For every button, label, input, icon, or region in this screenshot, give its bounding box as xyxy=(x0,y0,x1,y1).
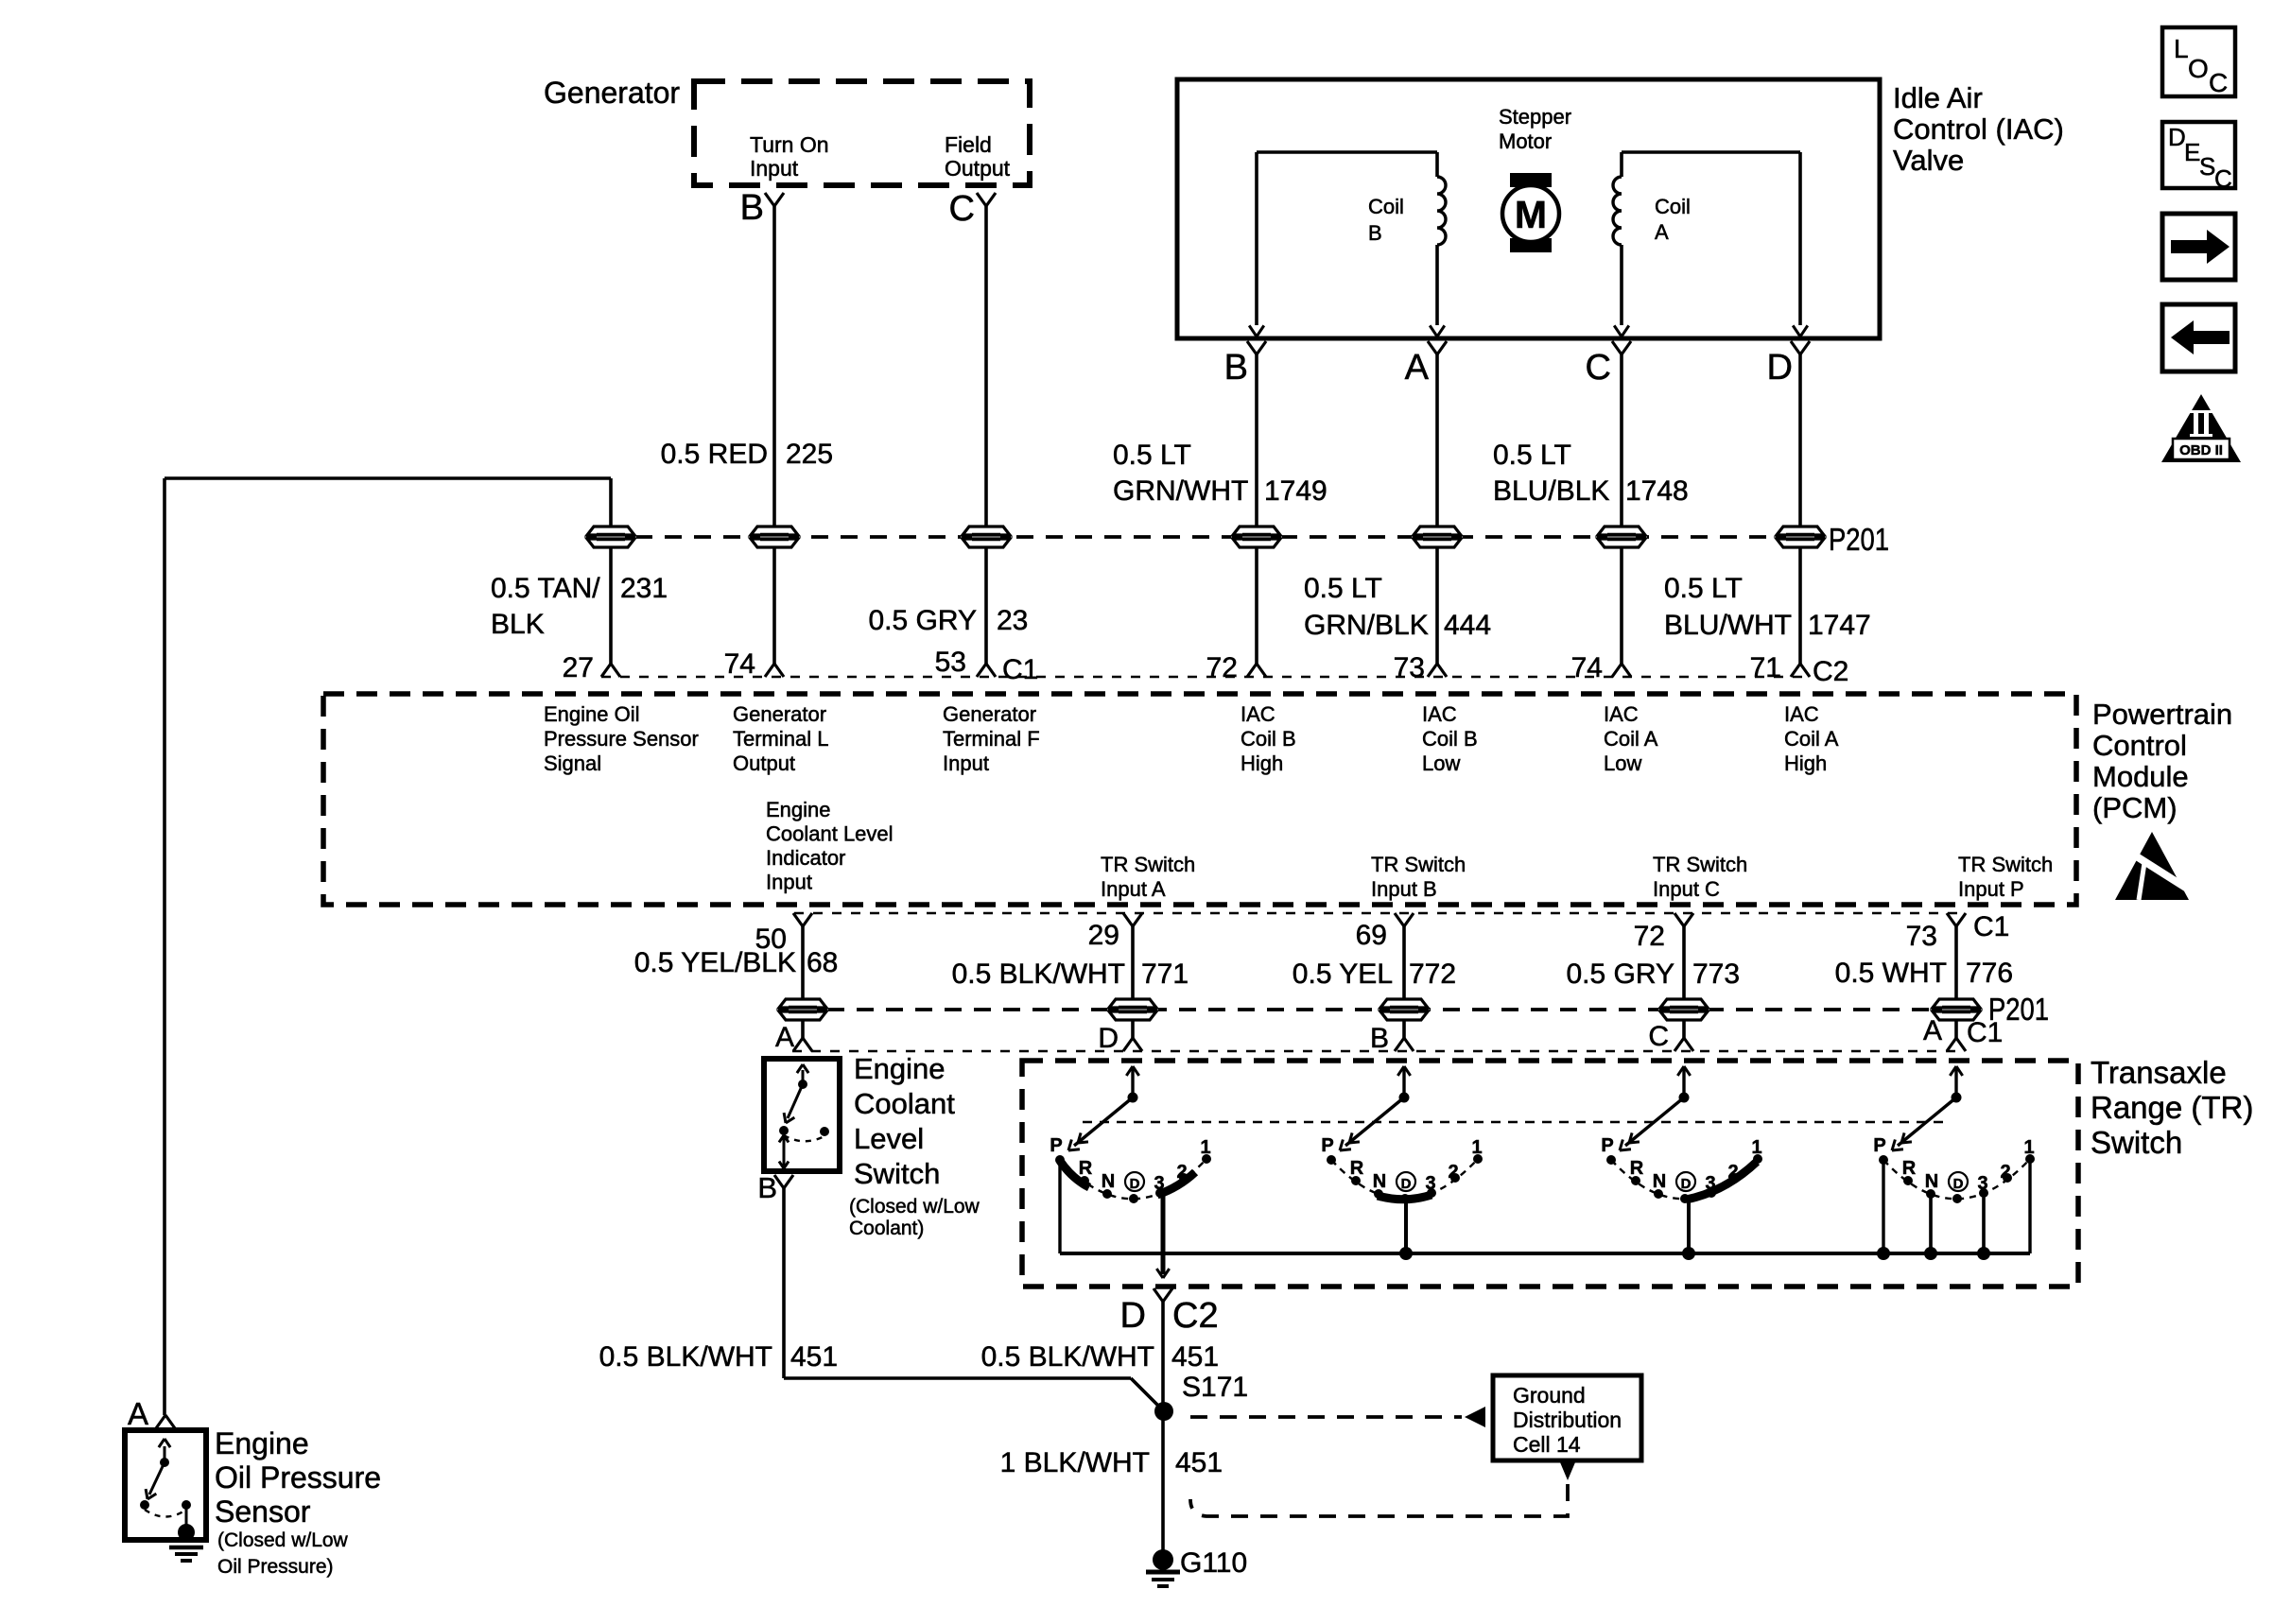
svg-text:Output: Output xyxy=(945,156,1011,181)
svg-text:B: B xyxy=(740,188,764,228)
svg-text:Input B: Input B xyxy=(1371,877,1437,901)
svg-text:GRN/WHT: GRN/WHT xyxy=(1113,475,1248,507)
svg-text:A: A xyxy=(775,1022,794,1053)
svg-text:P: P xyxy=(1050,1135,1062,1156)
svg-text:C: C xyxy=(2214,164,2232,193)
svg-text:29: 29 xyxy=(1088,920,1119,951)
svg-text:1: 1 xyxy=(1471,1137,1482,1158)
svg-text:Low: Low xyxy=(1422,752,1460,775)
svg-text:E: E xyxy=(2184,138,2200,166)
svg-text:Engine: Engine xyxy=(766,798,831,821)
svg-text:N: N xyxy=(1653,1171,1666,1192)
svg-text:27: 27 xyxy=(563,652,594,683)
svg-text:Engine: Engine xyxy=(215,1426,309,1460)
svg-text:Switch: Switch xyxy=(854,1157,940,1190)
svg-text:TR Switch: TR Switch xyxy=(1371,853,1466,876)
svg-text:69: 69 xyxy=(1356,920,1387,951)
svg-text:B: B xyxy=(1224,348,1248,388)
svg-text:0.5 YEL/BLK: 0.5 YEL/BLK xyxy=(634,947,796,978)
svg-text:73: 73 xyxy=(1906,921,1937,952)
svg-text:D: D xyxy=(1953,1176,1964,1192)
svg-text:Coil A: Coil A xyxy=(1604,727,1658,751)
svg-text:73: 73 xyxy=(1394,652,1425,683)
svg-text:2: 2 xyxy=(1448,1162,1458,1183)
svg-text:225: 225 xyxy=(786,439,833,470)
svg-text:L: L xyxy=(2174,34,2189,63)
svg-text:1749: 1749 xyxy=(1264,475,1327,507)
svg-text:776: 776 xyxy=(1966,958,2013,989)
svg-text:Valve: Valve xyxy=(1893,144,1964,177)
svg-text:1 BLK/WHT: 1 BLK/WHT xyxy=(1000,1447,1150,1478)
svg-text:A: A xyxy=(1655,220,1669,244)
svg-text:P: P xyxy=(1873,1135,1885,1156)
svg-text:M: M xyxy=(1515,193,1547,236)
svg-text:(PCM): (PCM) xyxy=(2092,791,2178,824)
svg-text:TR Switch: TR Switch xyxy=(1958,853,2053,876)
svg-text:Terminal L: Terminal L xyxy=(733,727,828,751)
svg-text:3: 3 xyxy=(1977,1173,1987,1194)
svg-text:Input: Input xyxy=(943,752,989,775)
svg-text:451: 451 xyxy=(790,1341,838,1373)
svg-text:TR Switch: TR Switch xyxy=(1653,853,1747,876)
svg-text:Turn On: Turn On xyxy=(750,132,829,157)
svg-text:Oil Pressure: Oil Pressure xyxy=(215,1460,381,1494)
svg-text:C: C xyxy=(1648,1021,1669,1052)
svg-text:BLU/BLK: BLU/BLK xyxy=(1493,475,1609,507)
svg-text:Input A: Input A xyxy=(1101,877,1166,901)
svg-text:53: 53 xyxy=(935,647,966,678)
svg-text:444: 444 xyxy=(1444,610,1491,641)
svg-text:P: P xyxy=(1321,1135,1333,1156)
svg-text:Distribution: Distribution xyxy=(1513,1408,1622,1432)
svg-text:R: R xyxy=(1079,1158,1093,1179)
svg-text:Low: Low xyxy=(1604,752,1641,775)
svg-text:N: N xyxy=(1102,1171,1115,1192)
svg-text:Input: Input xyxy=(766,871,812,894)
svg-text:0.5 LT: 0.5 LT xyxy=(1304,573,1382,604)
svg-text:0.5 GRY: 0.5 GRY xyxy=(1566,959,1674,990)
svg-text:D: D xyxy=(1098,1023,1119,1054)
svg-text:Oil Pressure): Oil Pressure) xyxy=(217,1556,334,1578)
svg-text:Terminal F: Terminal F xyxy=(943,727,1040,751)
svg-text:Generator: Generator xyxy=(544,76,680,110)
svg-text:D: D xyxy=(2168,123,2186,151)
svg-text:Field: Field xyxy=(945,132,992,157)
svg-text:1: 1 xyxy=(1200,1137,1210,1158)
svg-text:72: 72 xyxy=(1206,652,1238,683)
svg-text:Input C: Input C xyxy=(1653,877,1720,901)
svg-text:1747: 1747 xyxy=(1808,610,1871,641)
svg-text:0.5 LT: 0.5 LT xyxy=(1493,440,1571,471)
svg-text:Coolant): Coolant) xyxy=(849,1218,924,1239)
svg-text:N: N xyxy=(1373,1171,1386,1192)
svg-text:0.5 GRY: 0.5 GRY xyxy=(868,605,977,636)
svg-text:D: D xyxy=(1120,1296,1146,1336)
svg-text:772: 772 xyxy=(1409,959,1456,990)
svg-text:IAC: IAC xyxy=(1241,702,1275,726)
svg-text:Generator: Generator xyxy=(943,702,1036,726)
svg-text:D: D xyxy=(1130,1176,1140,1192)
svg-text:Ground: Ground xyxy=(1513,1383,1586,1408)
svg-text:0.5 RED: 0.5 RED xyxy=(661,439,768,470)
svg-text:C: C xyxy=(949,189,975,229)
svg-text:Coolant Level: Coolant Level xyxy=(766,822,894,846)
svg-text:P201: P201 xyxy=(1829,522,1889,557)
svg-text:Motor: Motor xyxy=(1499,130,1552,153)
svg-text:23: 23 xyxy=(997,605,1028,636)
svg-text:Range (TR): Range (TR) xyxy=(2091,1090,2253,1125)
svg-text:P: P xyxy=(1601,1135,1613,1156)
svg-text:Engine: Engine xyxy=(854,1052,946,1085)
svg-text:A: A xyxy=(128,1396,148,1431)
svg-text:Transaxle: Transaxle xyxy=(2091,1055,2227,1090)
svg-text:Generator: Generator xyxy=(733,702,826,726)
svg-text:GRN/BLK: GRN/BLK xyxy=(1304,610,1429,641)
svg-text:Indicator: Indicator xyxy=(766,846,845,870)
svg-text:D: D xyxy=(1767,348,1793,388)
svg-text:R: R xyxy=(1350,1158,1364,1179)
svg-text:C2: C2 xyxy=(1172,1296,1219,1336)
svg-text:Signal: Signal xyxy=(544,752,601,775)
svg-text:Powertrain: Powertrain xyxy=(2092,698,2232,731)
svg-text:Input P: Input P xyxy=(1958,877,2024,901)
svg-text:C: C xyxy=(1586,348,1611,388)
svg-text:Control (IAC): Control (IAC) xyxy=(1893,112,2064,146)
svg-text:Input: Input xyxy=(750,156,799,181)
svg-text:D: D xyxy=(1401,1176,1412,1192)
svg-text:R: R xyxy=(1902,1158,1917,1179)
svg-text:A: A xyxy=(1923,1015,1942,1046)
svg-text:0.5 LT: 0.5 LT xyxy=(1664,573,1743,604)
svg-text:Engine Oil: Engine Oil xyxy=(544,702,640,726)
svg-text:C1: C1 xyxy=(1002,654,1038,685)
svg-text:Sensor: Sensor xyxy=(215,1494,311,1529)
svg-text:G110: G110 xyxy=(1180,1547,1247,1579)
svg-text:Level: Level xyxy=(854,1122,924,1155)
svg-text:Coolant: Coolant xyxy=(854,1087,955,1120)
svg-text:D: D xyxy=(1681,1176,1692,1192)
svg-text:3: 3 xyxy=(1425,1173,1435,1194)
svg-text:2: 2 xyxy=(2000,1162,2010,1183)
svg-text:74: 74 xyxy=(1571,652,1603,683)
svg-text:Switch: Switch xyxy=(2091,1125,2182,1160)
svg-text:71: 71 xyxy=(1750,652,1781,683)
svg-text:Cell 14: Cell 14 xyxy=(1513,1432,1581,1457)
svg-text:Pressure Sensor: Pressure Sensor xyxy=(544,727,699,751)
svg-text:0.5 BLK/WHT: 0.5 BLK/WHT xyxy=(981,1341,1154,1373)
svg-text:451: 451 xyxy=(1175,1447,1223,1478)
svg-text:B: B xyxy=(1370,1023,1389,1054)
svg-text:High: High xyxy=(1784,752,1827,775)
svg-text:High: High xyxy=(1241,752,1283,775)
svg-text:C1: C1 xyxy=(1967,1017,2003,1048)
svg-text:Coil: Coil xyxy=(1368,195,1404,218)
svg-text:(Closed w/Low: (Closed w/Low xyxy=(217,1529,349,1551)
svg-text:0.5 TAN/: 0.5 TAN/ xyxy=(491,573,600,604)
svg-text:BLU/WHT: BLU/WHT xyxy=(1664,610,1792,641)
svg-text:773: 773 xyxy=(1692,959,1740,990)
svg-text:Coil: Coil xyxy=(1655,195,1691,218)
svg-text:1: 1 xyxy=(2023,1137,2034,1158)
svg-text:0.5 YEL: 0.5 YEL xyxy=(1293,959,1393,990)
svg-text:BLK: BLK xyxy=(491,609,545,640)
svg-text:(Closed w/Low: (Closed w/Low xyxy=(849,1196,980,1218)
svg-text:S: S xyxy=(2199,152,2215,181)
svg-text:0.5 WHT: 0.5 WHT xyxy=(1835,958,1947,989)
svg-text:Coil B: Coil B xyxy=(1422,727,1478,751)
svg-text:Module: Module xyxy=(2092,760,2189,793)
svg-text:0.5 BLK/WHT: 0.5 BLK/WHT xyxy=(599,1341,772,1373)
svg-text:TR Switch: TR Switch xyxy=(1101,853,1195,876)
svg-text:O: O xyxy=(2188,54,2209,83)
svg-text:Output: Output xyxy=(733,752,795,775)
svg-text:68: 68 xyxy=(807,947,838,978)
svg-text:72: 72 xyxy=(1634,921,1665,952)
svg-text:0.5 LT: 0.5 LT xyxy=(1113,440,1191,471)
svg-text:R: R xyxy=(1630,1158,1644,1179)
svg-text:IAC: IAC xyxy=(1604,702,1639,726)
svg-text:451: 451 xyxy=(1171,1341,1219,1373)
svg-text:74: 74 xyxy=(724,648,755,680)
svg-text:IAC: IAC xyxy=(1422,702,1457,726)
svg-text:1748: 1748 xyxy=(1625,475,1689,507)
svg-text:A: A xyxy=(1405,348,1430,388)
svg-text:Idle Air: Idle Air xyxy=(1893,81,1983,114)
svg-text:C2: C2 xyxy=(1813,656,1848,687)
svg-text:N: N xyxy=(1925,1171,1938,1192)
svg-text:C1: C1 xyxy=(1973,911,2009,942)
svg-text:Stepper: Stepper xyxy=(1499,105,1571,129)
svg-text:Coil A: Coil A xyxy=(1784,727,1839,751)
svg-text:1: 1 xyxy=(1751,1137,1761,1158)
svg-text:771: 771 xyxy=(1141,959,1189,990)
svg-text:Control: Control xyxy=(2092,729,2187,762)
svg-text:C: C xyxy=(2209,68,2228,97)
svg-text:OBD II: OBD II xyxy=(2179,442,2223,458)
svg-text:IAC: IAC xyxy=(1784,702,1819,726)
svg-text:S171: S171 xyxy=(1182,1372,1248,1403)
svg-text:B: B xyxy=(1368,221,1382,245)
svg-text:Coil B: Coil B xyxy=(1241,727,1296,751)
svg-text:0.5 BLK/WHT: 0.5 BLK/WHT xyxy=(952,959,1125,990)
svg-text:231: 231 xyxy=(620,573,668,604)
